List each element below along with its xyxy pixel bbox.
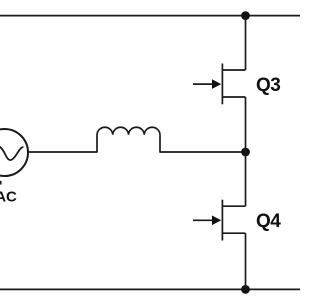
inductor L1 [97, 127, 160, 152]
wire bottom rail [0, 288, 300, 290]
wire top rail to Q3 drain [245, 16, 247, 70]
Q3 source connection [222, 96, 245, 98]
Q3 channel bar [221, 64, 223, 105]
transistor Q3 [193, 64, 246, 105]
AC source sine wave [0, 144, 23, 161]
AC source bottom terminal stub [0, 181, 2, 185]
junction node bottom [241, 285, 250, 294]
wire AC source to inductor [28, 151, 97, 153]
junction node top [241, 11, 250, 20]
wire middle node to Q4 drain [245, 152, 247, 206]
Q4 drain connection [222, 205, 245, 207]
svg-text:Q4: Q4 [256, 211, 281, 232]
Q4 channel bar [221, 200, 223, 241]
wire Q3 source to middle node [245, 97, 247, 152]
transistor Q4 [193, 200, 246, 241]
Q4 gate lead [193, 219, 214, 221]
junction node middle [241, 148, 250, 157]
AC source V1 circle [0, 129, 28, 176]
wire Q4 source to bottom rail [245, 233, 247, 289]
Q4 gate arrowhead [212, 216, 221, 226]
svg-text:AC: AC [0, 189, 17, 206]
Q3 drain connection [222, 69, 245, 71]
Q3 gate lead [193, 83, 214, 85]
wire inductor to middle node [160, 151, 246, 153]
wire top rail (+) [0, 15, 300, 17]
svg-text:Q3: Q3 [256, 75, 280, 96]
Q4 source connection [222, 232, 245, 234]
Q3 gate arrowhead [212, 79, 221, 89]
